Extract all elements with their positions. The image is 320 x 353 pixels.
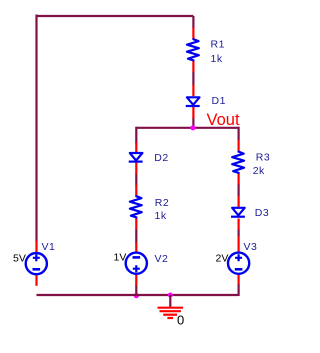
svg-text:R1: R1: [211, 39, 225, 51]
svg-text:5V: 5V: [13, 252, 26, 264]
node Vout junction: [190, 125, 195, 130]
wire Vout corner to D2: [135, 127, 137, 143]
wire V3 to bottom corner: [238, 284, 240, 296]
svg-text:1V: 1V: [114, 251, 127, 263]
wire between R3 and D3: [238, 184, 240, 196]
svg-text:0: 0: [177, 313, 184, 328]
wire bottom rail: [37, 294, 239, 296]
wire R1 branch upper: [192, 16, 194, 28]
svg-text:D1: D1: [212, 95, 226, 107]
wire between R2 and V2: [135, 229, 137, 243]
wire D1 to Vout node: [192, 118, 194, 129]
svg-text:Vout: Vout: [207, 111, 240, 129]
wire top rail: [37, 15, 194, 17]
svg-text:2k: 2k: [253, 165, 265, 177]
wire between D3 and V3: [238, 229, 240, 236]
diode D2: [129, 142, 143, 174]
wire V2 to bottom rail: [135, 285, 137, 296]
wire between R1 and D1: [192, 72, 194, 86]
resistor R3: [232, 140, 244, 185]
svg-text:V3: V3: [244, 241, 258, 253]
svg-text:1k: 1k: [155, 210, 167, 222]
svg-text:R3: R3: [256, 151, 270, 163]
junction ground node: [168, 293, 173, 298]
wire Vout horizontal: [136, 127, 238, 129]
svg-text:V2: V2: [155, 253, 169, 265]
ground 0: [158, 295, 184, 318]
wire Vout corner to R3: [238, 127, 240, 141]
svg-text:2V: 2V: [216, 252, 229, 264]
voltage source V3: [228, 236, 249, 284]
diode D3: [231, 196, 245, 230]
voltage source V1: [26, 241, 47, 286]
voltage source V2: [126, 243, 147, 286]
resistor R2: [130, 185, 142, 230]
svg-text:D2: D2: [154, 152, 168, 164]
svg-text:R2: R2: [155, 197, 169, 209]
diode D1: [186, 85, 200, 119]
junction V2 bottom rail: [134, 293, 139, 298]
wire between D2 and R2: [135, 174, 137, 186]
svg-text:1k: 1k: [211, 53, 223, 65]
svg-text:D3: D3: [255, 207, 269, 219]
svg-text:V1: V1: [42, 241, 56, 253]
wire left rail: [35, 15, 37, 242]
resistor R1: [187, 28, 199, 73]
